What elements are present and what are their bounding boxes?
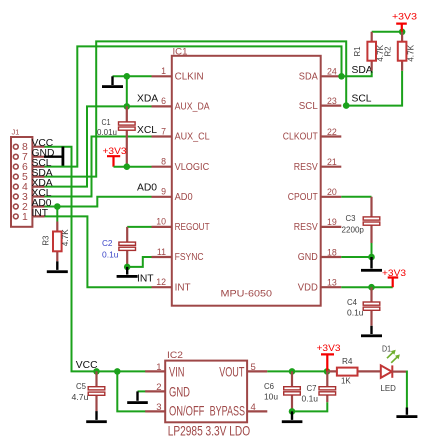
svg-text:MPU-6050: MPU-6050: [221, 289, 273, 300]
svg-text:IC2: IC2: [167, 350, 183, 361]
pin 11 FSYNC: [152, 247, 204, 263]
svg-text:21: 21: [327, 157, 337, 167]
ground below C5: [86, 411, 107, 423]
svg-text:19: 19: [327, 217, 337, 227]
wire net AD0 from J1.2 to IC1 pin9: [45, 197, 152, 207]
resistor R1: [353, 32, 385, 71]
svg-text:CLKIN: CLKIN: [175, 71, 204, 83]
svg-text:R3: R3: [42, 235, 51, 246]
pin 6 AUX_DA: [152, 96, 210, 112]
svg-text:4: 4: [251, 402, 256, 413]
ground at IC2 GND: [127, 391, 148, 404]
ground at CLKIN: [102, 76, 123, 88]
svg-text:4.7K: 4.7K: [61, 229, 70, 247]
pin 1 CLKIN: [152, 66, 204, 82]
svg-text:VDD: VDD: [298, 281, 318, 293]
node junction GND18: [368, 254, 375, 261]
pin 5 VOUT: [219, 362, 267, 379]
wire net VCC from J1.8 down to IC2 VIN: [45, 147, 146, 372]
ground below C4: [361, 326, 382, 337]
svg-text:24: 24: [327, 67, 337, 77]
svg-text:13: 13: [327, 278, 337, 288]
svg-text:10: 10: [156, 217, 166, 227]
node junction VOUT/C7: [324, 368, 331, 375]
resistor R2: [384, 32, 416, 71]
pin 8 VLOGIC: [152, 157, 210, 173]
svg-text:LP2985 3.3V LDO: LP2985 3.3V LDO: [168, 424, 251, 439]
node junction VCC/C5: [93, 368, 100, 375]
svg-text:0.1u: 0.1u: [102, 250, 119, 259]
node junction pin24: [338, 73, 345, 80]
svg-text:SDA: SDA: [299, 71, 318, 83]
svg-text:22: 22: [327, 127, 337, 137]
svg-text:7: 7: [161, 126, 166, 136]
pin 3 ON/OFF: [145, 402, 204, 418]
resistor R3: [42, 222, 71, 262]
svg-text:BYPASS: BYPASS: [210, 404, 245, 419]
node junction VCC/ON-OFF: [114, 368, 121, 375]
svg-text:FSYNC: FSYNC: [175, 251, 204, 263]
LED D1: [381, 344, 407, 393]
svg-text:REGOUT: REGOUT: [175, 221, 210, 233]
node junction C2/FSYNC: [124, 264, 131, 271]
svg-text:4.7K: 4.7K: [406, 44, 415, 62]
ground below R3: [47, 261, 68, 273]
wire net XDA from J1.4 to IC1 pin6: [45, 106, 152, 186]
svg-text:+3V3: +3V3: [317, 343, 341, 353]
svg-text:C1: C1: [102, 118, 111, 127]
svg-text:SCL: SCL: [352, 93, 372, 104]
resistor R4: [327, 357, 381, 385]
capacitor C1: [97, 106, 135, 166]
svg-text:1: 1: [156, 362, 161, 373]
wire CLKIN junction to XDA row: [126, 76, 128, 106]
ground at pin18: [361, 257, 382, 272]
svg-text:C6: C6: [264, 382, 275, 391]
svg-text:INT: INT: [175, 281, 192, 293]
wire C3 bottom to GND row: [371, 243, 373, 257]
capacitor C2: [102, 227, 136, 267]
svg-text:10u: 10u: [264, 392, 278, 401]
node junction VOUT/C6: [289, 368, 296, 375]
svg-text:AD0: AD0: [175, 191, 193, 203]
svg-text:AUX_DA: AUX_DA: [175, 101, 210, 113]
svg-text:RESV: RESV: [294, 161, 318, 173]
svg-text:ON/OFF: ON/OFF: [169, 404, 204, 419]
wire IC2 GND pin to ground: [138, 390, 147, 392]
svg-text:12: 12: [156, 277, 166, 287]
svg-text:CPOUT: CPOUT: [288, 191, 318, 203]
pin 10 REGOUT: [152, 217, 211, 233]
svg-text:8: 8: [161, 157, 166, 167]
pin 18 GND: [298, 247, 342, 263]
svg-text:0.1u: 0.1u: [347, 308, 364, 317]
svg-text:D1: D1: [382, 344, 391, 353]
svg-text:1: 1: [22, 212, 28, 223]
svg-text:R2: R2: [384, 46, 393, 57]
svg-text:9: 9: [161, 187, 166, 197]
wire LED cathode to ground: [406, 371, 408, 408]
capacitor C5: [72, 371, 105, 411]
pin 24 SDA: [299, 67, 342, 83]
svg-text:GND: GND: [298, 251, 318, 263]
svg-text:1K: 1K: [341, 377, 351, 386]
ground below C2: [117, 267, 138, 278]
ground at J1.7 (sideways): [44, 147, 64, 167]
svg-text:C3: C3: [346, 214, 357, 223]
svg-text:VOUT: VOUT: [219, 364, 245, 379]
wire net SDA from J1.5 to IC1 pin23 and R2: [45, 41, 403, 176]
wire AD0 junction down to R3: [56, 207, 58, 222]
node junction VDD/C4: [368, 284, 375, 291]
svg-text:CLKOUT: CLKOUT: [283, 131, 318, 143]
wire GND pin18: [341, 256, 371, 258]
pin 4 BYPASS: [210, 402, 268, 418]
pin 20 CPOUT: [288, 187, 342, 203]
svg-text:C7: C7: [307, 384, 318, 393]
svg-text:0.01u: 0.01u: [97, 128, 117, 137]
node junction CLKIN: [124, 73, 131, 80]
svg-text:J1: J1: [12, 128, 20, 137]
pin 9 AD0: [152, 187, 193, 203]
wire CLKIN to ground: [113, 75, 152, 77]
svg-text:AD0: AD0: [137, 183, 157, 194]
supply +3V3 at VDD: [382, 268, 406, 287]
svg-text:XDA: XDA: [137, 93, 158, 104]
wire R1 R2 tops: [372, 31, 402, 33]
node junction pin23: [343, 102, 350, 109]
pin 19 RESV: [294, 217, 342, 233]
wire C6/C7 bottoms: [292, 402, 327, 411]
svg-text:LED: LED: [381, 384, 397, 393]
svg-text:C5: C5: [76, 382, 87, 391]
connector J1: [11, 128, 45, 227]
capacitor C7: [302, 371, 336, 403]
svg-text:11: 11: [157, 247, 166, 257]
wire REGOUT to C2: [127, 226, 151, 228]
ground below LED: [396, 408, 417, 419]
wire FSYNC to C2 junction: [127, 257, 151, 267]
svg-text:R1: R1: [353, 46, 362, 57]
supply +3V3 above R2: [392, 11, 417, 32]
ground below C6: [282, 411, 303, 423]
svg-text:2200p: 2200p: [342, 226, 365, 235]
node junction VLOGIC: [124, 163, 131, 170]
wire net SCL from J1.6 to IC1 pin24 and R1: [45, 46, 372, 166]
capacitor C4: [347, 287, 380, 326]
node junction XDA: [124, 103, 131, 110]
node junction +3V3/R2: [399, 29, 406, 36]
supply +3V3 at VOUT: [317, 343, 341, 371]
svg-text:18: 18: [327, 247, 337, 257]
wire net INT from J1.1 to IC1 pin12: [45, 216, 152, 287]
wire VLOGIC: [114, 166, 152, 168]
wire net XCL from J1.3 to IC1 pin7: [45, 137, 152, 197]
svg-text:3: 3: [156, 402, 161, 413]
pin 2 GND: [145, 382, 190, 399]
svg-text:INT: INT: [32, 208, 49, 219]
pin 7 AUX_CL: [152, 126, 210, 142]
svg-text:20: 20: [327, 187, 337, 197]
capacitor C6: [264, 371, 300, 411]
pin 1 VIN: [145, 362, 184, 379]
pin 23 SCL: [299, 96, 342, 112]
svg-text:XCL: XCL: [137, 125, 157, 136]
svg-text:5: 5: [251, 362, 256, 373]
svg-text:C4: C4: [347, 298, 358, 307]
pin 12 INT: [152, 277, 192, 293]
svg-text:6: 6: [161, 96, 166, 106]
svg-text:SCL: SCL: [299, 100, 318, 112]
svg-text:INT: INT: [137, 273, 154, 284]
svg-text:+3V3: +3V3: [392, 11, 417, 21]
pin 21 RESV: [294, 157, 342, 173]
svg-text:+3V3: +3V3: [103, 146, 127, 156]
pin 13 VDD: [298, 278, 342, 294]
svg-text:4.7u: 4.7u: [72, 393, 89, 402]
svg-text:R4: R4: [342, 357, 353, 366]
node junction AD0/R3: [54, 203, 61, 210]
svg-text:GND: GND: [169, 384, 190, 399]
op-amp IC1 MPU-6050: [172, 46, 321, 305]
svg-text:VIN: VIN: [169, 364, 185, 379]
svg-text:VLOGIC: VLOGIC: [175, 161, 210, 173]
pin 22 CLKOUT: [283, 127, 342, 143]
svg-text:AUX_CL: AUX_CL: [175, 131, 210, 143]
svg-text:RESV: RESV: [294, 221, 318, 233]
svg-text:2: 2: [156, 382, 161, 393]
op-amp IC2 LP2985: [165, 350, 250, 439]
svg-text:1: 1: [161, 66, 166, 76]
LED arrows: [387, 350, 400, 363]
wire VDD pin13 to +3V3: [341, 286, 392, 288]
svg-text:+3V3: +3V3: [382, 268, 406, 278]
svg-text:23: 23: [327, 96, 337, 106]
supply +3V3 at VLOGIC: [103, 146, 127, 167]
wire ON/OFF tie to VCC: [117, 371, 146, 411]
svg-text:SDA: SDA: [352, 65, 373, 76]
svg-text:0.1u: 0.1u: [302, 394, 319, 403]
capacitor C3: [342, 197, 380, 243]
wire CPOUT to C3: [341, 196, 371, 198]
wire VOUT to R4: [267, 370, 327, 372]
svg-text:C2: C2: [102, 239, 113, 248]
node junction C6 bottom: [289, 408, 296, 415]
